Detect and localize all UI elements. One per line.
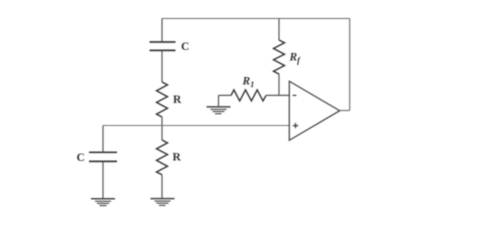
svg-text:R: R — [173, 151, 182, 163]
wire lower R to ground — [161, 175, 163, 199]
wire middle horizontal (node to + input) — [103, 125, 289, 127]
resistor R (lower, to ground) — [157, 140, 168, 175]
capacitor C (top) — [150, 42, 176, 50]
resistor R (upper, series with C) — [157, 82, 168, 117]
op-amp minus pin label — [293, 94, 297, 96]
op-amp plus pin label — [293, 123, 298, 128]
wire left branch top (to capacitor C) — [161, 19, 163, 42]
op-amp U1 — [289, 81, 339, 140]
wire op-amp output stub — [340, 110, 350, 112]
svg-text:C: C — [181, 41, 189, 53]
svg-text:R: R — [173, 94, 182, 106]
wire top horizontal — [162, 18, 350, 20]
wire R1 ground stub — [219, 95, 232, 106]
resistor R1 (horizontal) — [231, 90, 266, 101]
ground (under lower C) — [91, 199, 115, 206]
wire right vertical (output feedback) — [349, 19, 351, 111]
svg-text:R1: R1 — [242, 76, 255, 90]
ground (left of R1) — [207, 107, 231, 114]
wire Rf bottom to inverting node — [278, 74, 280, 95]
capacitor C (lower left) — [89, 152, 117, 161]
wire capacitor C to resistor R — [161, 51, 163, 82]
wire Rf top (junction to resistor) — [278, 19, 280, 41]
ground (under lower R) — [151, 199, 175, 206]
wire R1 to inverting input — [266, 94, 289, 96]
wire left sub-branch down (to capacitor C lower) — [102, 126, 104, 152]
resistor Rf — [274, 40, 285, 74]
wire lower C to ground — [102, 162, 104, 199]
wire R to node — [161, 117, 163, 140]
svg-text:Rf: Rf — [289, 51, 302, 65]
svg-text:C: C — [77, 152, 85, 164]
